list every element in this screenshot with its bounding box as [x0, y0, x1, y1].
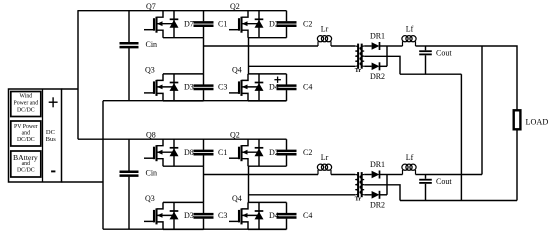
- svg-text:C3: C3: [218, 211, 227, 220]
- svg-text:Q4: Q4: [232, 194, 242, 203]
- capacitor C2 (bridge 2): [277, 139, 297, 166]
- block: BAttery and DC/DC: [11, 151, 41, 177]
- diode DR2 (bridge 1): [372, 62, 380, 70]
- svg-text:DC/DC: DC/DC: [17, 168, 35, 174]
- wire: - terminal to negative bus: [62, 181, 104, 183]
- inductor Lr (bridge 1): [317, 36, 331, 46]
- svg-text:Q4: Q4: [232, 65, 242, 74]
- wire: secondary top to DR1 (bridge 1): [364, 45, 371, 47]
- svg-text:DC/DC: DC/DC: [17, 137, 35, 143]
- inductor Lf (bridge 1): [402, 36, 416, 46]
- capacitor C3 (bridge 2): [194, 202, 214, 229]
- diode DR1 (bridge 1): [372, 42, 380, 50]
- wire: bridge 1 return drop to shared return: [460, 74, 462, 200]
- wire: cell bottom Q8 (bridge 2): [163, 165, 204, 167]
- svg-text:Q2: Q2: [230, 2, 240, 11]
- transistor Q8 (bridge 2): [144, 131, 174, 167]
- diode D2 (bridge 1): [255, 11, 264, 38]
- svg-text:DR2: DR2: [370, 201, 385, 210]
- svg-text:Tr: Tr: [355, 196, 362, 203]
- wire: parallel output link vertical: [481, 46, 483, 175]
- svg-text:C1: C1: [218, 20, 227, 29]
- svg-text:Q8: Q8: [146, 131, 156, 140]
- diode D3 (bridge 2): [170, 202, 179, 229]
- wire: transformer centre tap (bridge 1): [364, 56, 400, 74]
- wire: rectifier node to filter inductor (bridge 2): [387, 174, 403, 176]
- inductor Lf (bridge 2): [402, 164, 416, 174]
- svg-text:Q2: Q2: [230, 131, 240, 140]
- svg-text:LOAD: LOAD: [526, 118, 549, 127]
- svg-text:Tr: Tr: [355, 67, 362, 74]
- transistor Q2 (bridge 2): [229, 131, 259, 167]
- wire: bridge return B to transformer primary (bridge 2): [249, 194, 356, 196]
- diode DR1 (bridge 2): [372, 171, 380, 179]
- svg-text:D2: D2: [269, 148, 279, 157]
- wire: Lf to output node (bridge 1): [416, 45, 426, 47]
- svg-text:Q3: Q3: [145, 65, 155, 74]
- wire: DR2 to rectifier node (bridge 1): [379, 65, 387, 67]
- capacitor Cout (bridge 1): [419, 46, 432, 74]
- transformer Tr secondary winding (bridge 2): [360, 175, 364, 195]
- svg-text:and: and: [22, 131, 30, 137]
- diode D4 (bridge 1): [255, 74, 264, 101]
- capacitor C4 (bridge 2): [277, 202, 297, 229]
- svg-text:D3: D3: [184, 211, 194, 220]
- wire: transformer centre tap (bridge 2): [364, 185, 400, 201]
- wire: cell bottom Q2 (bridge 2): [248, 165, 287, 167]
- wire: bridge 1 negative rail: [103, 100, 287, 102]
- inductor Lr (bridge 2): [317, 164, 331, 174]
- polarity + mark at C4 (bridge 1): [274, 77, 281, 83]
- wire: cell top Q3 (bridge 2): [163, 201, 204, 203]
- wire: bridge 2 output to parallel link: [426, 174, 483, 176]
- capacitor Cin (bridge 1): [120, 11, 139, 101]
- wire: right leg midpoint vertical (bridge 2): [248, 166, 250, 202]
- wire: left leg midpoint vertical (bridge 1): [203, 38, 205, 74]
- svg-text:Power and: Power and: [13, 101, 38, 107]
- diode D3 (bridge 1): [170, 74, 179, 101]
- svg-text:Lf: Lf: [406, 25, 414, 34]
- block: PV Power and DC/DC: [11, 121, 41, 146]
- terminal - (DC bus negative): [51, 170, 55, 172]
- wire: bridge output A to resonant inductor (bridge 2): [204, 174, 319, 176]
- transistor Q2 (bridge 1): [229, 2, 259, 38]
- transistor Q3 (bridge 1): [144, 65, 174, 101]
- svg-text:DC: DC: [46, 129, 55, 136]
- transformer Tr secondary winding (bridge 1): [360, 46, 364, 66]
- diode DR2 (bridge 2): [372, 191, 380, 199]
- wire: right leg midpoint vertical (bridge 1): [248, 38, 250, 74]
- terminal + (DC bus positive): [49, 97, 58, 107]
- svg-text:D4: D4: [269, 211, 279, 220]
- diode D7 (bridge 1): [170, 11, 179, 38]
- divider between source boxes and DC bus column: [42, 89, 44, 182]
- svg-text:Cin: Cin: [146, 40, 158, 49]
- svg-text:C2: C2: [303, 20, 312, 29]
- transistor Q4 (bridge 1): [229, 65, 259, 101]
- svg-text:DR1: DR1: [370, 32, 385, 41]
- svg-text:Lr: Lr: [321, 153, 329, 162]
- wire: cell bottom Q4 (bridge 1): [248, 100, 287, 102]
- wire: cell bottom Q3 (bridge 1): [163, 100, 204, 102]
- svg-text:DR1: DR1: [370, 160, 385, 169]
- wire: bridge 1 positive rail: [78, 10, 287, 12]
- svg-text:D3: D3: [184, 83, 194, 92]
- wire: load bottom lead: [516, 129, 518, 201]
- wire: shared return rail to load (bottom): [400, 200, 517, 202]
- wire: Lr to transformer primary (bridge 1): [331, 45, 355, 47]
- svg-text:D7: D7: [184, 20, 194, 29]
- wire: rectifier cathode junction (bridge 2): [386, 175, 388, 195]
- resistor LOAD: [514, 110, 521, 129]
- wire: DR1 to rectifier node (bridge 1): [379, 45, 387, 47]
- wire: DR2 to rectifier node (bridge 2): [379, 194, 387, 196]
- wire: cell top Q3 (bridge 1): [163, 73, 204, 75]
- wire: bridge 1 return rail: [400, 73, 461, 75]
- diode D4 (bridge 2): [255, 202, 264, 229]
- wire: cell bottom Q4 (bridge 2): [248, 228, 287, 230]
- block: multi-source DC bus box (outer): [9, 89, 62, 182]
- svg-text:Lr: Lr: [321, 25, 329, 34]
- wire: Lf to output node (bridge 2): [416, 174, 426, 176]
- wire: bridge 2 negative rail: [103, 228, 287, 230]
- diode D2 (bridge 2): [255, 139, 264, 166]
- svg-text:D4: D4: [269, 83, 279, 92]
- wire: left leg midpoint vertical (bridge 2): [203, 166, 205, 202]
- capacitor C1 (bridge 2): [194, 139, 214, 166]
- wire: cell bottom Q7 (bridge 1): [163, 37, 204, 39]
- wire: cell top Q4 (bridge 2): [248, 201, 287, 203]
- wire: bridge 2 positive rail: [78, 138, 287, 140]
- wire: negative bus vertical: [102, 101, 104, 230]
- label DC Bus: [46, 129, 57, 143]
- capacitor C4 (bridge 1): [277, 74, 297, 101]
- block: Wind Power and DC/DC: [11, 92, 41, 117]
- svg-text:Cout: Cout: [436, 177, 452, 186]
- diode D8 (bridge 2): [170, 139, 179, 166]
- capacitor C2 (bridge 1): [277, 11, 297, 38]
- wire: secondary bottom to DR2 (bridge 2): [364, 194, 371, 196]
- svg-text:PV Power: PV Power: [14, 124, 38, 130]
- wire: bridge output A to resonant inductor (bridge 1): [204, 45, 319, 47]
- capacitor C3 (bridge 1): [194, 74, 214, 101]
- capacitor Cout (bridge 2): [419, 175, 432, 201]
- transformer Tr primary winding (bridge 1): [355, 46, 359, 66]
- wire: Lr to transformer primary (bridge 2): [331, 174, 355, 176]
- capacitor C1 (bridge 1): [194, 11, 214, 38]
- svg-text:Cout: Cout: [436, 48, 452, 57]
- wire: cell bottom Q2 (bridge 1): [248, 37, 287, 39]
- wire: secondary bottom to DR2 (bridge 1): [364, 65, 371, 67]
- svg-text:Q7: Q7: [146, 2, 156, 11]
- transformer Tr core (bridge 1): [358, 44, 362, 69]
- svg-text:Lf: Lf: [406, 153, 414, 162]
- svg-text:C2: C2: [303, 148, 312, 157]
- wire: bridge 1 output to load (top): [426, 46, 518, 110]
- svg-text:C3: C3: [218, 83, 227, 92]
- wire: cell bottom Q3 (bridge 2): [163, 228, 204, 230]
- transistor Q3 (bridge 2): [144, 194, 174, 230]
- wire: rectifier cathode junction (bridge 1): [386, 46, 388, 66]
- svg-text:DR2: DR2: [370, 72, 385, 81]
- svg-text:C4: C4: [303, 83, 312, 92]
- svg-text:C1: C1: [218, 148, 227, 157]
- wire: DR1 to rectifier node (bridge 2): [379, 174, 387, 176]
- svg-text:C4: C4: [303, 211, 312, 220]
- transformer Tr core (bridge 2): [358, 172, 362, 197]
- wire: rectifier node to filter inductor (bridge 1): [387, 45, 403, 47]
- capacitor Cin (bridge 2): [120, 139, 139, 229]
- transformer Tr primary winding (bridge 2): [355, 175, 359, 195]
- transistor Q4 (bridge 2): [229, 194, 259, 230]
- svg-text:D8: D8: [184, 148, 194, 157]
- wire: positive bus vertical: [77, 10, 79, 139]
- wire: bridge return B to transformer primary (bridge 1): [249, 65, 356, 67]
- svg-text:Cin: Cin: [146, 169, 158, 178]
- wire: + terminal to positive bus: [62, 88, 79, 90]
- wire: cell top Q4 (bridge 1): [248, 73, 287, 75]
- svg-text:Bus: Bus: [46, 136, 57, 143]
- svg-text:Q3: Q3: [145, 194, 155, 203]
- svg-text:D2: D2: [269, 20, 279, 29]
- svg-text:DC/DC: DC/DC: [17, 108, 35, 114]
- svg-text:and: and: [22, 161, 30, 167]
- svg-text:Wind: Wind: [19, 94, 32, 100]
- wire: secondary top to DR1 (bridge 2): [364, 174, 371, 176]
- transistor Q7 (bridge 1): [144, 2, 174, 38]
